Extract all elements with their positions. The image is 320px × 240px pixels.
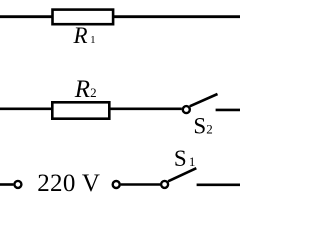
- wire middle branch right: [216, 109, 240, 112]
- svg-text:220 V: 220 V: [37, 170, 100, 197]
- resistor R2: [52, 102, 109, 118]
- terminal left of 220 V: [14, 181, 21, 188]
- terminal right of 220 V: [113, 181, 120, 188]
- wire bottom between terminal and S1: [121, 183, 161, 186]
- wire bottom right of S1: [197, 184, 240, 187]
- wire bottom left stub: [0, 183, 13, 186]
- resistor R1: [53, 10, 114, 25]
- wire middle branch left: [0, 108, 182, 111]
- switch S1 pivot: [161, 181, 168, 188]
- wire top branch: [0, 15, 240, 18]
- switch S2 lever: [190, 94, 218, 106]
- switch S1 lever: [168, 168, 196, 181]
- switch S2 pivot: [183, 106, 190, 113]
